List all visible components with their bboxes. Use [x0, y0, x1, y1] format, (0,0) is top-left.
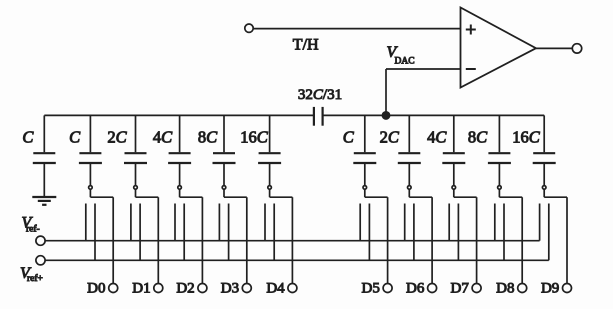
svg-text:C: C — [22, 128, 34, 147]
svg-text:D3: D3 — [221, 281, 239, 297]
svg-text:DAC: DAC — [395, 57, 415, 67]
svg-text:C: C — [69, 128, 81, 147]
svg-text:D0: D0 — [87, 281, 105, 297]
svg-text:4C: 4C — [427, 128, 447, 147]
svg-text:ref-: ref- — [26, 224, 40, 235]
svg-text:D7: D7 — [451, 281, 470, 297]
svg-text:D4: D4 — [266, 281, 285, 297]
svg-text:D5: D5 — [362, 281, 380, 297]
svg-text:16C: 16C — [512, 128, 541, 147]
svg-text:8C: 8C — [468, 128, 488, 147]
svg-text:4C: 4C — [153, 128, 173, 147]
svg-text:D8: D8 — [496, 281, 514, 297]
svg-text:C: C — [343, 128, 355, 147]
svg-text:D6: D6 — [406, 281, 425, 297]
svg-text:T/H: T/H — [293, 37, 319, 54]
svg-text:32C/31: 32C/31 — [298, 87, 342, 103]
svg-text:2C: 2C — [107, 128, 127, 147]
svg-text:D1: D1 — [132, 281, 150, 297]
svg-text:D2: D2 — [176, 281, 194, 297]
svg-text:8C: 8C — [198, 128, 218, 147]
svg-text:D9: D9 — [541, 281, 559, 297]
svg-text:2C: 2C — [380, 128, 400, 147]
svg-text:ref+: ref+ — [27, 273, 43, 284]
svg-text:16C: 16C — [240, 128, 269, 147]
